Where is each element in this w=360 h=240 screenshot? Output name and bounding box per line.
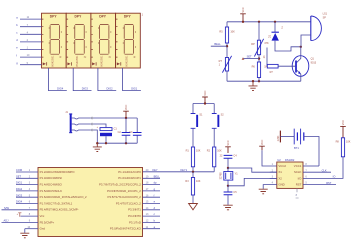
wire net DIG2 — [98, 68, 116, 91]
power VCC — [202, 90, 208, 103]
junction — [227, 167, 229, 169]
svg-text:HS410561: HS410561 — [102, 55, 104, 67]
junction — [227, 185, 229, 187]
wire pin 19 (P1.0/ADC0/CCP1) — [143, 177, 161, 179]
svg-text:P1.2/ADC2/SS/RXD/CMPO: P1.2/ADC2/SS/RXD/CMPO — [40, 170, 76, 174]
wire pin 14 (P3.3/INT1) — [143, 209, 161, 211]
svg-text:HS410561: HS410561 — [77, 55, 79, 67]
svg-text:SP: SP — [323, 16, 327, 19]
wire speaker bottom terminal — [301, 35, 311, 47]
junction — [125, 117, 127, 119]
svg-text:P1.1/ADC1/CCP0: P1.1/ADC1/CCP0 — [118, 170, 141, 174]
wire pin 6 (P1.7/ADC7/TxD_3/XTAL1) — [16, 203, 38, 205]
ground — [223, 205, 232, 210]
svg-text:IO: IO — [333, 175, 336, 179]
svg-text:KEY1: KEY1 — [180, 168, 187, 172]
transistor Q1 — [292, 47, 317, 81]
svg-text:VCC2: VCC2 — [278, 164, 286, 168]
wire pin 7 (P5.4/RST/MCLKO/SS_3/CMP-) — [2, 209, 39, 211]
wire — [258, 78, 260, 82]
resistor R3 pull-down — [185, 172, 200, 195]
thermistor RT1 — [219, 56, 232, 73]
ground (triangle) — [189, 204, 198, 210]
wire pin 5 (P1.6/ADC6/RxD_3/XTAL2/MCLKO_2) — [16, 196, 38, 198]
wire pin 4 (P1.5/ADC5/SCLK) — [16, 190, 38, 192]
wire to X2 — [228, 178, 277, 185]
wire net SCLK — [303, 168, 331, 172]
svg-text:1K: 1K — [263, 55, 266, 58]
wire — [192, 167, 194, 172]
capacitor C3 — [129, 118, 141, 143]
svg-text:DPY: DPY — [99, 14, 107, 18]
svg-text:DIG2: DIG2 — [107, 87, 114, 91]
svg-text:VCC: VCC — [342, 120, 345, 125]
junction — [258, 21, 260, 23]
svg-text:P3.2/INT0: P3.2/INT0 — [128, 214, 141, 218]
battery BT1 — [277, 129, 319, 166]
wire segment net d — [16, 38, 41, 42]
resistor R7 (base) — [263, 48, 278, 75]
wire net DIG1 — [123, 68, 141, 91]
wire segment net f — [16, 53, 41, 57]
svg-text:SET: SET — [247, 54, 252, 58]
junction node BELL — [226, 45, 228, 47]
svg-text:P5.4/RST/MCLKO/SS_3/CMP-: P5.4/RST/MCLKO/SS_3/CMP- — [40, 208, 79, 212]
svg-text:VCC: VCC — [125, 105, 128, 110]
wire — [258, 22, 260, 40]
svg-text:9013: 9013 — [311, 61, 317, 64]
junction — [252, 80, 254, 82]
crystal Y1 — [220, 168, 239, 186]
svg-text:DS1302: DS1302 — [285, 158, 295, 162]
junction — [192, 171, 194, 173]
pin circle — [91, 129, 93, 131]
wire segment net g — [16, 62, 41, 65]
wire pin 11 (P3.0/RxD/INT4/T2CLKO) — [143, 228, 161, 230]
svg-text:RST: RST — [326, 181, 332, 185]
svg-text:BELL: BELL — [214, 42, 221, 46]
resistor R2 — [207, 147, 222, 167]
wire pin 16 (P3.5/T1/T1CLKO/CCP0_2) — [143, 196, 161, 198]
wire — [258, 55, 260, 62]
svg-text:RP: RP — [251, 43, 255, 46]
pin circle — [91, 117, 93, 119]
wire bottom rail — [227, 80, 301, 82]
svg-text:P3.3/INT1: P3.3/INT1 — [128, 208, 141, 212]
wire net I/O — [303, 157, 343, 179]
speaker LS1 — [311, 12, 328, 40]
svg-text:X1: X1 — [278, 170, 282, 174]
wire — [93, 130, 97, 143]
wire pin 8 (Vcc) — [21, 215, 39, 217]
wire — [192, 195, 194, 203]
display DS2 — [91, 13, 116, 68]
wire pin 13 (P3.2/INT0) — [143, 215, 161, 217]
svg-text:47K: 47K — [264, 42, 269, 45]
wire segment net a — [16, 16, 41, 19]
svg-text:P1.3/ADC3/MOSI: P1.3/ADC3/MOSI — [40, 176, 62, 180]
svg-text:S/W: S/W — [4, 206, 9, 210]
pushbutton S2 — [212, 104, 224, 129]
wire pin 9 (P5.5/CMP+) — [2, 221, 39, 223]
wire X1 stub — [270, 171, 277, 173]
ground — [20, 233, 29, 238]
ground — [259, 189, 268, 194]
wire — [226, 22, 228, 27]
svg-text:DPY: DPY — [75, 14, 83, 18]
svg-text:Q1: Q1 — [311, 57, 315, 60]
junction — [274, 21, 276, 23]
wire pin 17 (P3.6/INT2/RxD_2/CCP1_2) — [143, 190, 161, 192]
wire net DIG4 — [49, 68, 67, 91]
connector pin wire — [72, 130, 91, 131]
svg-text:GND: GND — [278, 183, 284, 187]
pin stub below U2 — [296, 188, 299, 198]
wire pin 3 (P1.4/ADC4/MISO) — [16, 184, 38, 186]
capacitor C5 — [224, 186, 238, 205]
wire base — [278, 65, 295, 67]
wire GND pin — [263, 185, 277, 189]
wire segment net c — [16, 31, 41, 34]
svg-text:DIG4: DIG4 — [57, 87, 64, 91]
svg-text:P3.4/T0/T1CLKO_2: P3.4/T0/T1CLKO_2 — [116, 201, 141, 205]
svg-text:DIG3: DIG3 — [82, 87, 89, 91]
wire key rail — [193, 103, 214, 105]
junction — [96, 142, 98, 144]
junction — [125, 142, 127, 144]
svg-text:P1.5/ADC5/SCLK: P1.5/ADC5/SCLK — [40, 189, 63, 193]
wire net DIG3 — [73, 68, 91, 91]
wire X2 stub — [270, 177, 277, 179]
connector pin wire — [72, 118, 91, 119]
resistor R1 — [186, 147, 201, 167]
svg-text:COM: COM — [16, 168, 22, 172]
svg-text:BELL: BELL — [154, 174, 161, 178]
svg-text:VCC1: VCC1 — [294, 164, 302, 168]
svg-text:P1.0/ADC0/CCP1: P1.0/ADC0/CCP1 — [118, 176, 141, 180]
connector pin wire — [72, 124, 91, 125]
wire net BELL — [211, 42, 227, 46]
capacitor C4 — [220, 155, 238, 168]
wire — [192, 129, 194, 148]
svg-text:VCC: VCC — [242, 7, 245, 12]
capacitor C2 — [118, 118, 131, 143]
ground — [93, 143, 102, 151]
potentiometer RP1 — [251, 39, 269, 57]
svg-text:DIG1: DIG1 — [16, 181, 23, 185]
svg-text:P1.4/ADC4/MISO: P1.4/ADC4/MISO — [40, 183, 63, 187]
power VCC (for VCC2 pin) — [259, 140, 265, 151]
junction node SET — [258, 57, 260, 59]
svg-text:DPY: DPY — [124, 14, 132, 18]
svg-text:VCC: VCC — [261, 140, 264, 145]
power symbol at Vcc pin — [17, 213, 22, 217]
resistor R8 — [336, 138, 351, 157]
resistor R6 — [252, 62, 268, 78]
resistor R5 — [219, 27, 235, 43]
svg-text:SCLK: SCLK — [294, 170, 302, 174]
wire — [213, 129, 215, 148]
wire — [226, 71, 228, 81]
power VCC — [340, 120, 346, 138]
svg-text:Gnd: Gnd — [40, 227, 46, 231]
junction — [105, 142, 107, 144]
svg-text:10K: 10K — [230, 30, 235, 33]
svg-text:DIG2: DIG2 — [16, 187, 23, 191]
svg-text:HS410561: HS410561 — [126, 55, 128, 67]
svg-text:32768: 32768 — [220, 172, 223, 180]
svg-text:Vcc: Vcc — [40, 214, 45, 218]
wire — [213, 167, 215, 172]
svg-text:SET: SET — [16, 174, 21, 178]
wire pin 15 (P3.4/T0/T1CLKO_2) — [143, 203, 161, 205]
svg-text:P3.1/TxD: P3.1/TxD — [129, 220, 141, 224]
svg-text:RST: RST — [296, 183, 302, 187]
svg-text:P5.5/CMP+: P5.5/CMP+ — [40, 220, 55, 224]
connector J1 — [65, 111, 72, 133]
power VCC — [225, 140, 231, 153]
svg-text:10K: 10K — [196, 180, 201, 183]
wire net RST — [303, 181, 336, 185]
svg-text:P1.7/ADC7/TxD_3/XTAL1: P1.7/ADC7/TxD_3/XTAL1 — [40, 201, 73, 205]
wire Gnd pin down — [24, 229, 26, 233]
svg-text:U2: U2 — [277, 158, 281, 162]
IC U1 MCU — [38, 168, 143, 237]
svg-text:P3.6/INT2/RxD_2/CCP1_2: P3.6/INT2/RxD_2/CCP1_2 — [107, 189, 141, 193]
svg-text:DIG1: DIG1 — [131, 87, 138, 91]
IC U2 DS1302 — [272, 158, 308, 188]
power VCC — [240, 7, 246, 22]
svg-text:VCC: VCC — [204, 90, 207, 95]
junction — [300, 46, 302, 48]
wire — [226, 43, 228, 58]
wire pin 12 (P3.1/TxD) — [143, 221, 161, 223]
svg-text:VCC: VCC — [227, 140, 230, 145]
wire pin 18 (P3.7/INT3/TxD_2/CCP2/CCP0_2) — [143, 184, 161, 186]
svg-text:P3.7/INT3/TxD_2/CCP2/CCP0_2: P3.7/INT3/TxD_2/CCP2/CCP0_2 — [99, 183, 141, 187]
svg-text:P3.0/RxD/INT4/T2CLKO: P3.0/RxD/INT4/T2CLKO — [110, 227, 142, 231]
svg-text:DPY: DPY — [50, 14, 58, 18]
junction — [242, 21, 244, 23]
junction — [204, 102, 206, 104]
display DS3 — [66, 13, 91, 68]
svg-text:X2: X2 — [278, 176, 282, 180]
svg-text:10K: 10K — [346, 141, 351, 144]
wire — [93, 124, 106, 127]
svg-text:BT1: BT1 — [294, 146, 299, 150]
wire segment net b — [16, 23, 41, 27]
svg-text:DIG4: DIG4 — [16, 200, 23, 204]
svg-text:P1.6/ADC6/RxD_3/XTAL2/MCLKO_2: P1.6/ADC6/RxD_3/XTAL2/MCLKO_2 — [40, 195, 87, 199]
svg-text:P3.5/T1/T1CLKO/CCP0_2: P3.5/T1/T1CLKO/CCP0_2 — [108, 195, 142, 199]
wire VCC1 — [303, 165, 319, 167]
display DS4 — [42, 13, 67, 68]
wire net KEY — [143, 168, 214, 172]
svg-text:10K: 10K — [196, 150, 201, 153]
wire net SET — [242, 54, 259, 59]
wire diode cathode to collector node — [275, 41, 301, 51]
ground — [249, 81, 258, 90]
wire segment net e — [16, 47, 41, 50]
svg-text:HS410561: HS410561 — [52, 55, 54, 67]
power VCC — [123, 105, 129, 118]
diode D1 (zener, pointing up) — [268, 22, 283, 41]
wire pin 10 (Gnd) — [25, 228, 38, 230]
wire VCC rail — [93, 117, 137, 119]
wire VCC2 — [262, 150, 277, 166]
svg-text:LS1: LS1 — [323, 12, 328, 15]
wire pin 2 (P1.3/ADC3/MOSI) — [16, 177, 38, 179]
pushbutton S1 — [191, 104, 203, 129]
wire top rail — [227, 21, 311, 23]
svg-text:DIG3: DIG3 — [16, 193, 23, 197]
svg-text:KEY: KEY — [152, 168, 157, 172]
junction — [258, 80, 260, 82]
svg-text:ADJ: ADJ — [4, 219, 10, 223]
wire ground rail — [97, 142, 137, 144]
display DS1 — [116, 13, 141, 68]
pin circle — [91, 123, 93, 125]
wire pin 1 (P1.2/ADC2/SS/RXD/CMPO) — [16, 171, 38, 173]
capacitor C1 electrolytic — [97, 126, 118, 143]
svg-text:CLK: CLK — [322, 168, 327, 172]
svg-text:GND: GND — [277, 135, 280, 141]
wire to X1 — [228, 168, 277, 172]
svg-text:10K: 10K — [217, 150, 222, 153]
